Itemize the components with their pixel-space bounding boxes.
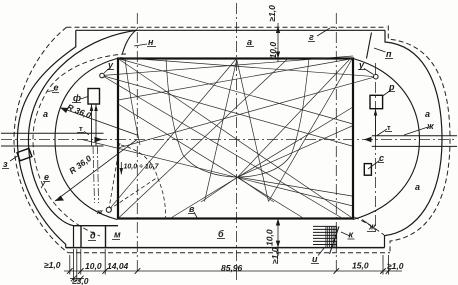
svg-text:у: у: [358, 60, 365, 70]
svg-text:≥1,0: ≥1,0: [44, 260, 61, 270]
svg-text:10,0: 10,0: [85, 261, 102, 271]
svg-text:е: е: [44, 172, 49, 182]
svg-text:14,04: 14,04: [107, 261, 129, 271]
svg-text:а: а: [247, 37, 252, 47]
svg-text:ж: ж: [426, 121, 434, 131]
svg-text:д: д: [90, 231, 96, 241]
svg-text:с: с: [379, 153, 384, 163]
svg-text:е: е: [54, 83, 59, 93]
svg-text:ж: ж: [368, 222, 376, 232]
svg-text:15,0: 15,0: [352, 261, 369, 271]
svg-text:к: к: [349, 230, 354, 240]
svg-text:т: т: [387, 123, 391, 132]
svg-text:85,96: 85,96: [221, 263, 243, 273]
svg-text:а: а: [425, 109, 430, 119]
svg-text:т: т: [79, 124, 83, 133]
svg-text:н: н: [148, 37, 154, 47]
svg-text:≥1,0: ≥1,0: [270, 247, 280, 264]
svg-text:≥1,0: ≥1,0: [387, 261, 404, 271]
svg-text:и: и: [312, 254, 318, 264]
svg-text:10,0 ÷ 10,7: 10,0 ÷ 10,7: [124, 164, 160, 171]
svg-text:10,0: 10,0: [265, 229, 275, 246]
svg-text:≥1,0: ≥1,0: [267, 5, 277, 22]
svg-text:а: а: [415, 182, 420, 192]
svg-text:б: б: [218, 229, 224, 239]
svg-text:г: г: [309, 32, 314, 42]
svg-text:ж: ж: [96, 207, 103, 216]
svg-text:ф: ф: [73, 93, 81, 103]
svg-text:п: п: [386, 49, 392, 59]
svg-text:з: з: [3, 159, 8, 169]
svg-text:а: а: [43, 109, 48, 119]
svg-text:10,0: 10,0: [268, 42, 278, 59]
svg-text:в: в: [189, 204, 195, 214]
svg-text:у: у: [107, 60, 114, 70]
svg-text:р: р: [388, 82, 395, 92]
svg-text:м: м: [114, 230, 121, 240]
svg-text:≥3,0: ≥3,0: [72, 276, 89, 285]
